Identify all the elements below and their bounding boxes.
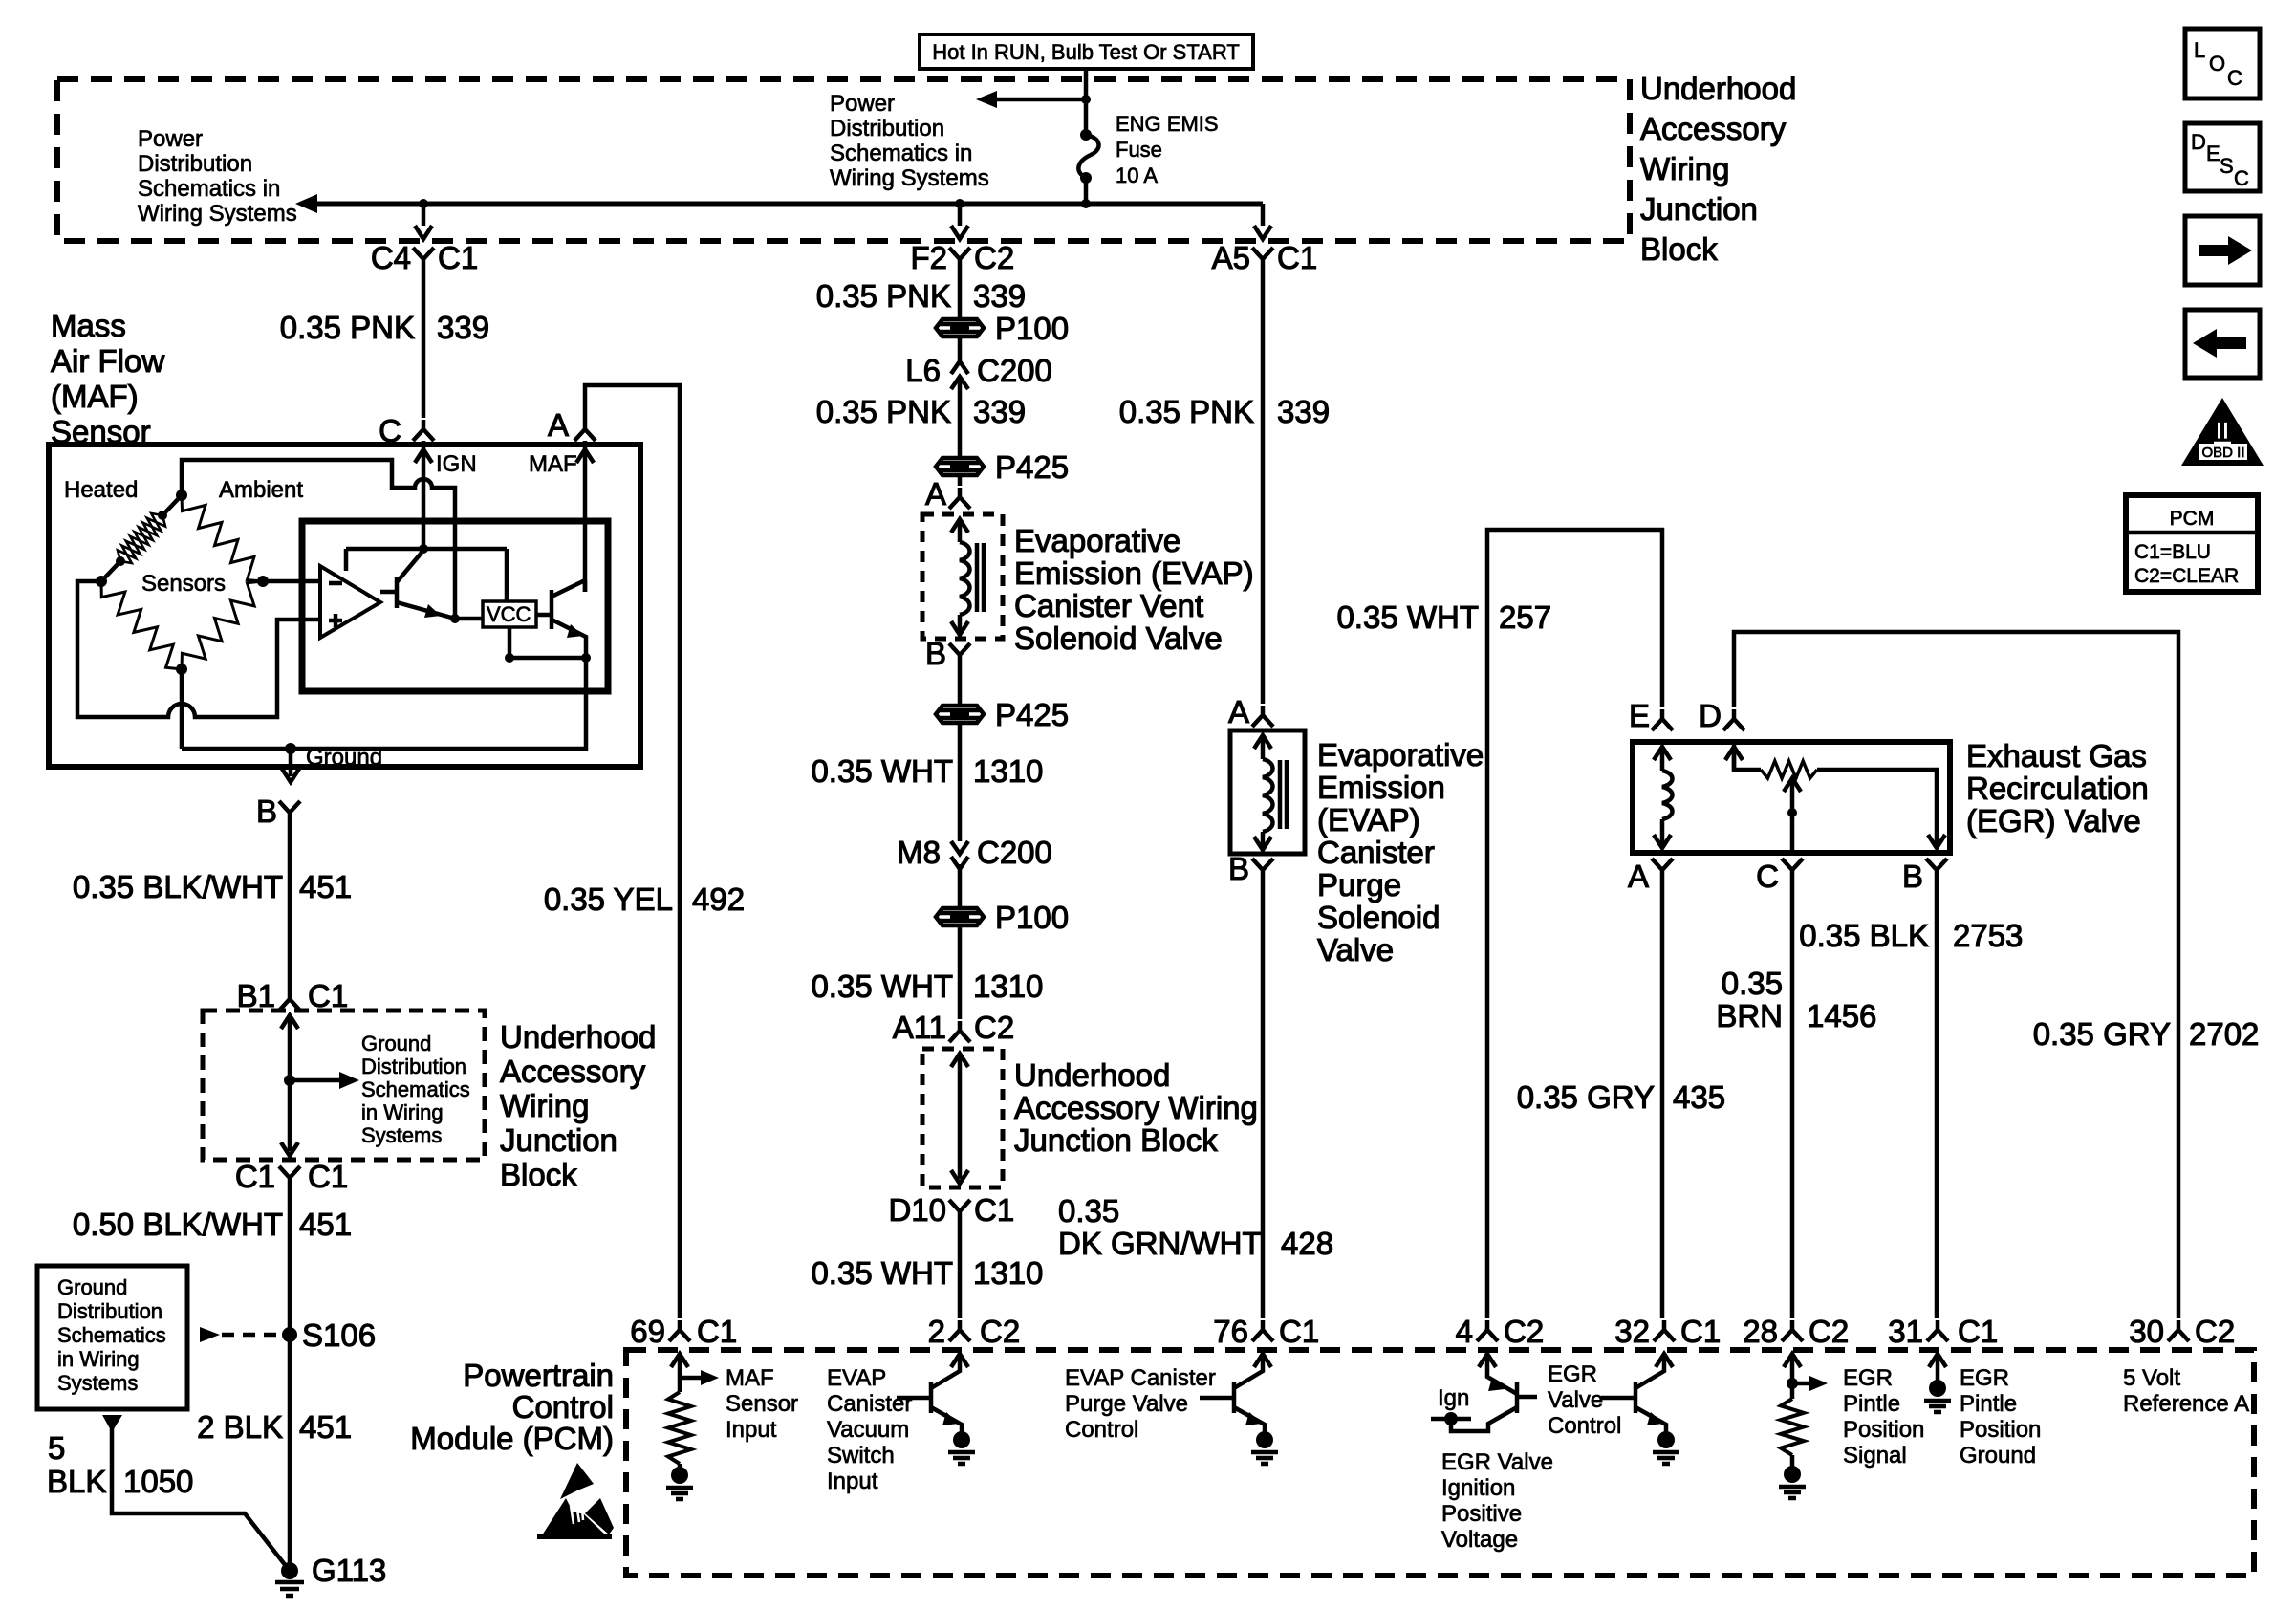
- svg-text:Wiring: Wiring: [500, 1088, 590, 1123]
- svg-text:E: E: [2206, 141, 2220, 165]
- svg-text:C2: C2: [2195, 1314, 2235, 1349]
- terminal B of MAF sensor: [256, 794, 300, 829]
- label 0.35 BLK 2753: [1799, 918, 2023, 953]
- svg-text:2: 2: [928, 1314, 945, 1349]
- svg-text:Underhood: Underhood: [1014, 1057, 1170, 1093]
- svg-text:Input: Input: [827, 1469, 878, 1494]
- label 5 Volt Reference A: [2123, 1365, 2249, 1417]
- svg-text:OBD II: OBD II: [2201, 445, 2244, 461]
- resistor ambient: [182, 495, 263, 581]
- wire feedback rail: [505, 653, 591, 663]
- wire MAF output arrow: [529, 441, 594, 592]
- svg-text:A: A: [925, 476, 946, 511]
- svg-text:Recirculation: Recirculation: [1966, 771, 2149, 806]
- svg-text:Distribution: Distribution: [830, 116, 944, 141]
- node Hot In RUN feed box: [920, 34, 1253, 69]
- resistor EGR pintle position signal (pin 28): [1779, 1354, 1828, 1498]
- svg-text:C1: C1: [438, 240, 478, 275]
- transistor EGR valve ignition positive voltage (pin 4): [1431, 1354, 1537, 1431]
- ground G113: [275, 1553, 386, 1596]
- svg-text:32: 32: [1614, 1314, 1650, 1349]
- svg-text:Emission: Emission: [1317, 770, 1445, 805]
- svg-text:C: C: [2234, 166, 2249, 190]
- transistor Q1: [380, 553, 455, 619]
- svg-text:BRN: BRN: [1716, 998, 1783, 1033]
- svg-text:Canister: Canister: [1317, 835, 1435, 870]
- icon DESC box: [2185, 123, 2260, 191]
- svg-text:MAF: MAF: [529, 451, 577, 477]
- svg-text:C1: C1: [308, 978, 348, 1013]
- svg-text:Junction Block: Junction Block: [1014, 1122, 1218, 1158]
- wire arrow to power distribution (upper): [976, 91, 1091, 108]
- svg-text:G113: G113: [312, 1553, 386, 1588]
- connector pin 30/C2: [2129, 1314, 2235, 1349]
- svg-text:451: 451: [299, 1207, 352, 1242]
- svg-text:5 Volt: 5 Volt: [2123, 1365, 2180, 1391]
- svg-text:Accessory: Accessory: [500, 1054, 646, 1089]
- svg-text:E: E: [1629, 698, 1650, 733]
- svg-text:C1: C1: [308, 1159, 348, 1194]
- svg-text:C200: C200: [977, 353, 1052, 388]
- label EGR Valve Control: [1548, 1361, 1621, 1439]
- svg-text:EVAP: EVAP: [827, 1365, 886, 1391]
- connector P425: [936, 449, 1069, 485]
- label ENG EMIS Fuse 10 A: [1116, 112, 1219, 187]
- svg-text:Evaporative: Evaporative: [1317, 737, 1484, 772]
- wire collector supply rail: [346, 544, 507, 601]
- svg-text:Fuse: Fuse: [1116, 138, 1162, 162]
- wire from ground schematics box to G113: [102, 1415, 290, 1571]
- label EGR Pintle Position Ground: [1960, 1365, 2041, 1469]
- svg-text:B1: B1: [237, 978, 275, 1013]
- label Powertrain Control Module (PCM): [410, 1358, 614, 1456]
- svg-text:Wiring Systems: Wiring Systems: [830, 165, 989, 191]
- svg-text:339: 339: [973, 394, 1026, 429]
- svg-text:C: C: [2227, 66, 2242, 90]
- svg-text:0.35 WHT: 0.35 WHT: [811, 1255, 953, 1291]
- svg-text:C1: C1: [974, 1192, 1014, 1228]
- svg-text:C2: C2: [974, 1010, 1014, 1045]
- terminal B of purge solenoid: [1228, 851, 1273, 886]
- wire purge B to PCM pin 76, 0.35 DK GRN/WHT 428: [1261, 880, 1266, 1318]
- svg-text:D10: D10: [888, 1192, 946, 1228]
- svg-text:0.35 BLK: 0.35 BLK: [1799, 918, 1929, 953]
- svg-text:EGR: EGR: [1960, 1365, 2009, 1391]
- svg-text:Vacuum: Vacuum: [827, 1417, 909, 1443]
- svg-text:A: A: [548, 407, 569, 443]
- svg-text:ENG EMIS: ENG EMIS: [1116, 112, 1219, 136]
- svg-text:0.50 BLK/WHT: 0.50 BLK/WHT: [73, 1207, 283, 1242]
- svg-text:O: O: [2209, 52, 2225, 76]
- node bus junction at MAF drop: [419, 199, 428, 208]
- connector pin 69/C1: [630, 1314, 737, 1349]
- wire A5 to purge solenoid, 0.35 PNK 339: [1261, 269, 1266, 704]
- svg-text:Position: Position: [1960, 1417, 2041, 1443]
- wire IGN feed C4 to MAF terminal C, 0.35 PNK 339: [422, 269, 426, 418]
- svg-text:C2: C2: [980, 1314, 1020, 1349]
- svg-text:C1=BLU: C1=BLU: [2134, 541, 2211, 563]
- wire power bus inside junction block: [295, 194, 1263, 213]
- wire dashed link to S106: [200, 1327, 283, 1342]
- svg-text:Power: Power: [138, 126, 203, 152]
- terminal B of vent solenoid: [925, 636, 970, 671]
- terminal E of EGR valve: [1629, 698, 1673, 733]
- terminal A of purge solenoid: [1228, 694, 1273, 729]
- svg-text:L6: L6: [905, 353, 941, 388]
- wire inside ground junction block: [281, 1015, 298, 1156]
- svg-text:Schematics: Schematics: [361, 1077, 470, 1101]
- label 0.35 WHT 1310 (second): [811, 968, 1043, 1004]
- wire MAF output A up and over to PCM pin 69: [585, 385, 680, 1318]
- svg-text:A5: A5: [1212, 240, 1250, 275]
- svg-text:Distribution: Distribution: [361, 1055, 466, 1078]
- svg-text:B: B: [1902, 859, 1923, 894]
- label Underhood Accessory Wiring Junction Block: [1640, 71, 1796, 267]
- connector pin 2/C2: [928, 1314, 1021, 1349]
- svg-text:Emission (EVAP): Emission (EVAP): [1014, 555, 1254, 591]
- svg-text:PCM: PCM: [2170, 508, 2215, 530]
- svg-text:B: B: [925, 636, 946, 671]
- label 0.50 BLK/WHT 451: [73, 1207, 352, 1242]
- svg-text:EGR: EGR: [1548, 1361, 1597, 1387]
- module: Powertrain Control Module PCM (dashed): [626, 1350, 2254, 1576]
- svg-text:69: 69: [630, 1314, 665, 1349]
- terminal C of MAF sensor: [379, 413, 434, 448]
- svg-text:Sensors: Sensors: [141, 571, 226, 597]
- svg-text:0.35 BLK/WHT: 0.35 BLK/WHT: [73, 869, 283, 904]
- svg-text:Hot In RUN, Bulb Test Or START: Hot In RUN, Bulb Test Or START: [932, 40, 1240, 64]
- svg-text:C1: C1: [235, 1159, 275, 1194]
- svg-text:C: C: [1756, 859, 1779, 894]
- svg-text:1456: 1456: [1807, 998, 1876, 1033]
- svg-text:EGR Valve: EGR Valve: [1441, 1449, 1553, 1475]
- amplifier inner box: [302, 521, 608, 691]
- svg-text:P100: P100: [995, 900, 1069, 935]
- node bus junction at F2 drop: [955, 199, 964, 208]
- node bridge bottom vertex: [176, 664, 187, 675]
- connector pin 31/C1: [1888, 1314, 1998, 1349]
- label EGR Valve Ignition Positive Voltage: [1441, 1449, 1553, 1553]
- svg-text:S106: S106: [302, 1317, 376, 1353]
- svg-text:Systems: Systems: [361, 1123, 442, 1147]
- svg-text:MAF: MAF: [726, 1365, 774, 1391]
- svg-text:Schematics in: Schematics in: [830, 141, 972, 166]
- connector F2/C2: [910, 240, 1014, 275]
- svg-text:76: 76: [1213, 1314, 1248, 1349]
- wiper of EGR potentiometer: [1784, 778, 1801, 853]
- svg-text:C2: C2: [1809, 1314, 1849, 1349]
- label 0.35 BLK/WHT 451: [73, 869, 352, 904]
- svg-text:D: D: [1699, 698, 1722, 733]
- svg-text:Ground: Ground: [306, 745, 382, 771]
- wire F2 to vent solenoid chain: [958, 269, 963, 486]
- svg-text:0.35 PNK: 0.35 PNK: [280, 310, 415, 345]
- node bus junction at fuse: [1081, 199, 1091, 208]
- label 0.35 PNK 339 (F2): [816, 278, 1026, 314]
- svg-text:Heated: Heated: [64, 477, 138, 503]
- transistor EVAP canister vacuum switch input (pin 2): [897, 1354, 975, 1464]
- resistor heated (double zigzag): [101, 495, 182, 581]
- icon OBD II triangle: [2181, 398, 2264, 466]
- svg-text:Schematics: Schematics: [57, 1323, 166, 1347]
- wire internal ground rail: [182, 658, 586, 749]
- svg-text:428: 428: [1281, 1226, 1333, 1261]
- svg-text:Exhaust Gas: Exhaust Gas: [1966, 738, 2147, 773]
- svg-text:Ign: Ign: [1438, 1385, 1469, 1411]
- valve: Exhaust Gas Recirculation (EGR) box: [1633, 742, 1950, 853]
- wire EGR A to PCM pin 32, 0.35 GRY 435: [1660, 880, 1665, 1318]
- svg-text:M8: M8: [897, 835, 941, 870]
- connector D10/C1: [888, 1192, 1014, 1228]
- label 0.35 PNK 339 (A5): [1119, 394, 1330, 429]
- svg-text:IGN: IGN: [436, 451, 477, 477]
- label 0.35 DK GRN/WHT 428: [1058, 1193, 1333, 1261]
- label 0.35 WHT 257: [1336, 599, 1551, 635]
- wire EGR E to PCM pin 4, 0.35 WHT 257: [1487, 530, 1662, 1318]
- svg-text:Ground: Ground: [57, 1275, 127, 1299]
- node emitter junction Q1: [450, 614, 460, 623]
- svg-text:451: 451: [299, 1409, 352, 1445]
- svg-text:1310: 1310: [973, 968, 1043, 1004]
- ground EGR pintle position ground (pin 31): [1924, 1354, 1951, 1412]
- svg-text:0.35 PNK: 0.35 PNK: [1119, 394, 1254, 429]
- label Mass Air Flow (MAF) Sensor: [51, 308, 164, 449]
- wire bridge top to amp supply with hop over IGN: [182, 460, 455, 619]
- svg-text:C4: C4: [371, 240, 411, 275]
- wire ground arrow: [282, 745, 382, 782]
- svg-text:P425: P425: [995, 449, 1069, 485]
- label 0.35 PNK 339 (below C200): [816, 394, 1026, 429]
- svg-text:Control: Control: [1548, 1413, 1621, 1439]
- wire from Hot box into junction block: [1084, 69, 1089, 99]
- svg-text:0.35 WHT: 0.35 WHT: [811, 753, 953, 789]
- svg-text:C1: C1: [1680, 1314, 1721, 1349]
- label 0.35 WHT 1310 (third): [811, 1255, 1043, 1291]
- svg-text:Canister: Canister: [827, 1391, 912, 1417]
- svg-text:C2: C2: [974, 240, 1014, 275]
- terminal A of MAF sensor: [548, 407, 596, 443]
- terminal C of EGR valve: [1756, 859, 1803, 894]
- wire MAF ground B to B1, 0.35 BLK/WHT 451: [288, 822, 292, 990]
- svg-text:Canister Vent: Canister Vent: [1014, 588, 1203, 623]
- ESD warning symbol: [537, 1463, 614, 1539]
- svg-text:Ground: Ground: [361, 1032, 431, 1055]
- icon LOC box: [2185, 29, 2260, 98]
- wire EGR D to PCM pin 30, 0.35 GRY 2702: [1734, 632, 2178, 1318]
- fuse ENG EMIS 10 A: [1078, 99, 1098, 204]
- svg-text:Solenoid: Solenoid: [1317, 900, 1440, 935]
- svg-text:5: 5: [48, 1430, 65, 1466]
- svg-text:EGR: EGR: [1843, 1365, 1893, 1391]
- terminal A of vent solenoid: [925, 476, 970, 511]
- wire EGR C to PCM pin 28, 0.35 BRN 1456: [1790, 880, 1795, 1318]
- svg-text:0.35 PNK: 0.35 PNK: [816, 278, 951, 314]
- svg-text:Underhood: Underhood: [500, 1019, 656, 1055]
- svg-text:(EGR) Valve: (EGR) Valve: [1966, 803, 2141, 838]
- svg-text:Sensor: Sensor: [726, 1391, 798, 1417]
- svg-text:EVAP Canister: EVAP Canister: [1065, 1365, 1216, 1391]
- legend PCM connector colors: [2126, 495, 2258, 592]
- label Underhood Accessory Wiring Junction Block (left): [500, 1019, 656, 1192]
- svg-text:0.35 GRY: 0.35 GRY: [1517, 1079, 1655, 1115]
- wire hop of + loop over bridge ground leg: [159, 704, 205, 717]
- label EVAP Canister Vacuum Switch Input: [827, 1365, 912, 1494]
- MAF sensor outline box: [49, 445, 640, 767]
- solenoid: EVAP canister purge solenoid valve: [1230, 730, 1305, 854]
- wire inside mid junction block: [951, 1054, 968, 1184]
- svg-text:Solenoid Valve: Solenoid Valve: [1014, 620, 1223, 656]
- svg-text:C1: C1: [1277, 240, 1317, 275]
- svg-text:B: B: [1228, 851, 1249, 886]
- node bridge right vertex: [257, 576, 269, 587]
- svg-text:28: 28: [1743, 1314, 1778, 1349]
- connector B1/C1: [237, 978, 349, 1013]
- connector pin 4/C2: [1456, 1314, 1545, 1349]
- wire IGN entry arrow: [415, 441, 477, 549]
- svg-text:257: 257: [1499, 599, 1551, 635]
- svg-text:Purge: Purge: [1317, 867, 1401, 903]
- svg-text:1310: 1310: [973, 1255, 1043, 1291]
- svg-text:in Wiring: in Wiring: [361, 1100, 444, 1124]
- label 0.35 PNK 339: [280, 310, 489, 345]
- resistor bridge lower-left: [101, 581, 182, 669]
- wire C1 to S106, 0.50 BLK/WHT 451: [288, 1187, 292, 1335]
- svg-text:C2=CLEAR: C2=CLEAR: [2134, 565, 2239, 587]
- node splice to ground distribution: [284, 1072, 359, 1089]
- node bridge top vertex: [176, 490, 187, 501]
- svg-text:Input: Input: [726, 1417, 777, 1443]
- junction block: ground distribution (dashed): [203, 1011, 485, 1160]
- connector C4/C1: [371, 240, 478, 275]
- potentiometer of EGR valve: [1725, 742, 1945, 848]
- svg-text:Mass: Mass: [51, 308, 126, 343]
- svg-text:A: A: [1628, 859, 1649, 894]
- label Power Distribution Schematics in Wiring Systems (left): [138, 126, 297, 227]
- label 2 BLK 451: [197, 1409, 352, 1445]
- wire drop to A5: [1254, 204, 1271, 239]
- terminal A of EGR valve: [1628, 859, 1673, 894]
- svg-text:Block: Block: [1640, 231, 1718, 267]
- wire drop to F2: [951, 204, 968, 239]
- op-amp U1: [320, 566, 380, 638]
- svg-text:31: 31: [1888, 1314, 1923, 1349]
- wire VCC bottom to feedback rail: [508, 627, 512, 658]
- svg-text:339: 339: [437, 310, 489, 345]
- svg-text:Air Flow: Air Flow: [51, 343, 164, 379]
- svg-text:2 BLK: 2 BLK: [197, 1409, 283, 1445]
- svg-text:S: S: [2220, 154, 2234, 178]
- connector P425 (second): [936, 697, 1069, 732]
- svg-text:Signal: Signal: [1843, 1443, 1907, 1469]
- connector M8/C200: [897, 835, 1052, 870]
- svg-text:Distribution: Distribution: [138, 151, 252, 177]
- label Ground Distribution Schematics in Wiring Systems (small): [361, 1032, 470, 1147]
- svg-text:C1: C1: [1958, 1314, 1998, 1349]
- wire VCC to Q2 base: [536, 613, 552, 618]
- svg-text:Wiring Systems: Wiring Systems: [138, 201, 297, 227]
- transistor Q2: [552, 580, 586, 658]
- svg-text:in Wiring: in Wiring: [57, 1347, 140, 1371]
- label Exhaust Gas Recirculation (EGR) Valve: [1966, 738, 2149, 838]
- svg-text:0.35 GRY: 0.35 GRY: [2033, 1016, 2171, 1052]
- svg-text:Purge Valve: Purge Valve: [1065, 1391, 1188, 1417]
- coil of purge solenoid: [1254, 735, 1287, 850]
- svg-text:L: L: [2194, 38, 2205, 62]
- svg-text:0.35: 0.35: [1722, 966, 1783, 1001]
- svg-text:Control: Control: [1065, 1417, 1138, 1443]
- svg-text:30: 30: [2129, 1314, 2164, 1349]
- connector pin 76/C1: [1213, 1314, 1319, 1349]
- svg-text:VCC: VCC: [487, 602, 531, 626]
- svg-text:(MAF): (MAF): [51, 379, 139, 414]
- svg-text:Powertrain: Powertrain: [463, 1358, 614, 1393]
- label 5 BLK 1050: [47, 1430, 193, 1499]
- icon back arrow box: [2185, 310, 2260, 378]
- junction block: Underhood Accessory Wiring Junction Block (mid, dashed): [922, 1049, 1003, 1187]
- svg-text:Module (PCM): Module (PCM): [410, 1421, 614, 1456]
- svg-text:2702: 2702: [2189, 1016, 2259, 1052]
- svg-text:Reference A: Reference A: [2123, 1391, 2249, 1417]
- svg-text:P425: P425: [995, 697, 1069, 732]
- svg-text:451: 451: [299, 869, 352, 904]
- connector P100: [936, 311, 1069, 346]
- svg-text:Systems: Systems: [57, 1371, 138, 1395]
- svg-text:1310: 1310: [973, 753, 1043, 789]
- transistor EVAP canister purge valve control (pin 76): [1200, 1354, 1278, 1464]
- svg-text:Ignition: Ignition: [1441, 1475, 1515, 1501]
- terminal B of EGR valve: [1902, 859, 1947, 894]
- svg-text:Wiring: Wiring: [1640, 151, 1730, 186]
- node bridge left vertex: [96, 576, 107, 587]
- terminal D of EGR valve: [1699, 698, 1744, 733]
- svg-text:2753: 2753: [1953, 918, 2023, 953]
- label Evaporative Emission (EVAP) Canister Vent Solenoid Valve: [1014, 523, 1254, 656]
- connector C1/C1: [235, 1159, 348, 1194]
- svg-text:492: 492: [692, 881, 745, 917]
- resistor MAF sensor input (pin 69): [666, 1354, 719, 1499]
- svg-text:Positive: Positive: [1441, 1501, 1522, 1527]
- label 0.35 YEL 492: [544, 881, 745, 917]
- svg-text:Schematics in: Schematics in: [138, 176, 280, 202]
- regulator VCC box: [483, 601, 536, 627]
- svg-text:Distribution: Distribution: [57, 1299, 162, 1323]
- label Underhood Accessory Wiring Junction Block (mid): [1014, 1057, 1258, 1158]
- svg-text:Underhood: Underhood: [1640, 71, 1796, 106]
- svg-text:Block: Block: [500, 1157, 577, 1192]
- icon forward arrow box: [2185, 216, 2260, 285]
- svg-text:Switch: Switch: [827, 1443, 895, 1469]
- wire D10 to PCM pin 2, 0.35 WHT 1310: [958, 1221, 963, 1318]
- label Evaporative Emission (EVAP) Canister Purge Solenoid Valve: [1317, 737, 1484, 968]
- svg-text:Junction: Junction: [1640, 191, 1758, 227]
- wire left vertex loop to op-amp + input: [77, 581, 320, 717]
- svg-text:A: A: [1228, 694, 1249, 729]
- svg-text:Valve: Valve: [1548, 1387, 1603, 1413]
- svg-text:4: 4: [1456, 1314, 1473, 1349]
- node ground tap: [285, 743, 296, 754]
- svg-text:(EVAP): (EVAP): [1317, 802, 1420, 838]
- resistor bridge lower-right: [182, 581, 263, 669]
- svg-text:Position: Position: [1843, 1417, 1924, 1443]
- connector A11/C2: [893, 1010, 1014, 1045]
- connector P100 (second): [936, 900, 1069, 935]
- connector pin 32/C1: [1614, 1314, 1721, 1349]
- label Power Distribution Schematics in Wiring Systems (mid): [830, 91, 989, 191]
- svg-text:Ground: Ground: [1960, 1443, 2036, 1469]
- svg-text:C1: C1: [1279, 1314, 1319, 1349]
- svg-text:Pintle: Pintle: [1843, 1391, 1900, 1417]
- svg-text:C1: C1: [697, 1314, 737, 1349]
